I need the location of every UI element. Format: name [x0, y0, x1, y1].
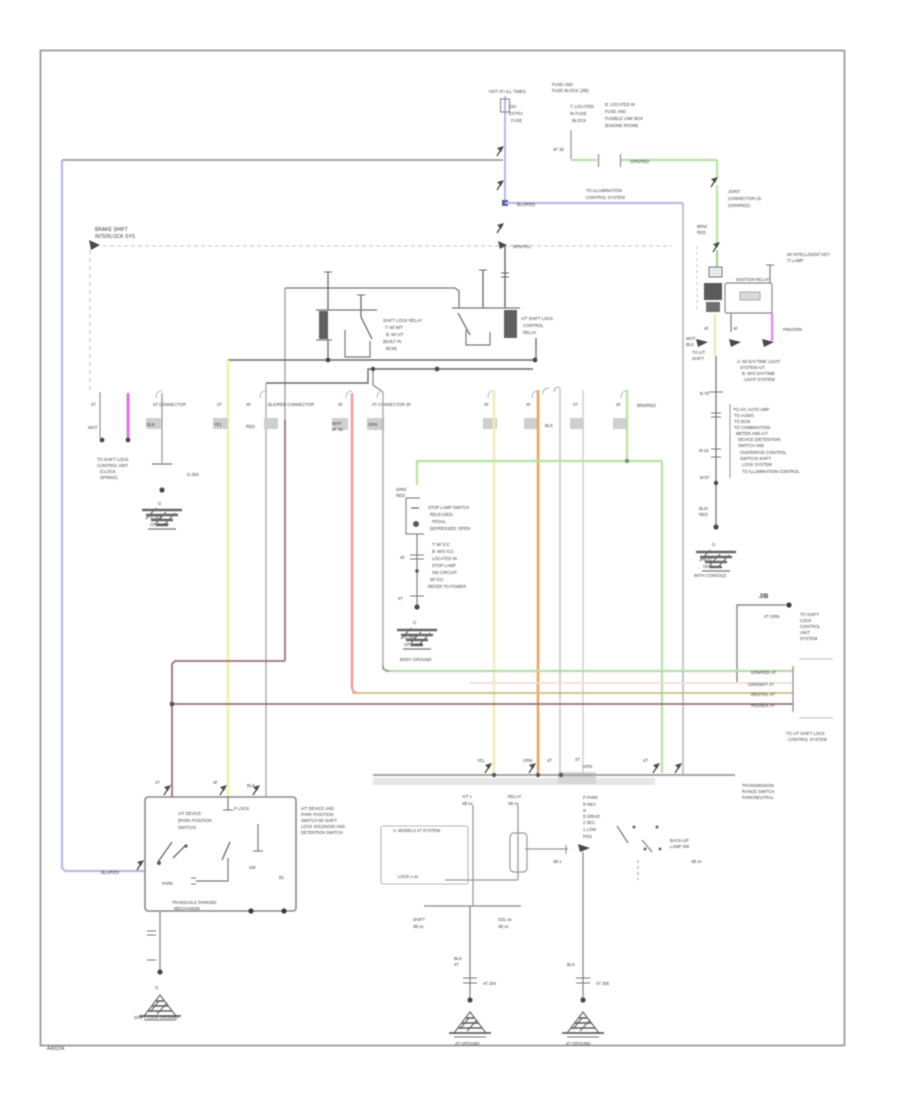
wire pale yellow x=715 — [714, 314, 717, 356]
wire tan row3 y=693 — [352, 692, 793, 694]
svg-text:4T 305: 4T 305 — [596, 981, 610, 986]
svg-text:FUSE: FUSE — [511, 118, 522, 123]
svg-text:A/T DEVICE AND: A/T DEVICE AND — [301, 806, 334, 811]
common line left — [525, 848, 568, 850]
svg-text:IN FUSE: IN FUSE — [570, 111, 587, 116]
wire green vertical x=717 top — [716, 160, 718, 178]
wire BLK main feed horizontal y=160 — [62, 159, 503, 161]
svg-text:4B xx: 4B xx — [498, 924, 509, 929]
svg-text:SWITCH W/ SHIFT: SWITCH W/ SHIFT — [301, 818, 337, 823]
svg-text:WHT: WHT — [332, 421, 342, 426]
connector ticks on green — [598, 154, 600, 167]
svg-text:4T: 4T — [575, 757, 580, 762]
svg-text:A40234: A40234 — [47, 1046, 64, 1052]
svg-text:T: LOCATED: T: LOCATED — [570, 104, 594, 109]
svg-text:TRANSAXLE PARKING: TRANSAXLE PARKING — [172, 900, 217, 905]
svg-text:BLK: BLK — [686, 342, 694, 347]
ground G3 chassis — [696, 550, 736, 571]
component stack capacitor — [709, 267, 722, 277]
svg-text:4T GROUND: 4T GROUND — [566, 1041, 591, 1046]
svg-text:4F 36: 4F 36 — [553, 147, 564, 152]
svg-text:EXTRA: EXTRA — [509, 111, 523, 116]
svg-text:B: W/ A/T: B: W/ A/T — [386, 332, 404, 337]
svg-text:GROUND: GROUND — [404, 642, 423, 647]
svg-text:YEL: YEL — [214, 422, 223, 427]
connector bracket right x=793 — [792, 666, 794, 712]
svg-text:R REV: R REV — [583, 802, 596, 807]
svg-text:SYSTEM A/T: SYSTEM A/T — [740, 365, 765, 370]
fuse F1 symbol — [501, 99, 510, 112]
svg-text:IGNITION RELAY: IGNITION RELAY — [736, 277, 769, 282]
svg-text:MECHANISM: MECHANISM — [174, 906, 200, 911]
ground G1 chassis — [142, 508, 182, 529]
svg-text:DETENTION SWITCH: DETENTION SWITCH — [301, 830, 343, 835]
svg-text:TO A/C AUTO AMP: TO A/C AUTO AMP — [733, 407, 769, 412]
wire BLU/RED horizontal y=203 — [505, 202, 683, 204]
svg-text:4F: 4F — [484, 402, 489, 407]
svg-text:T: W/ ICC: T: W/ ICC — [432, 542, 450, 547]
drop from bus to connector row x=373 — [373, 369, 383, 392]
junction dots y=360 — [326, 358, 331, 363]
svg-text:4F: 4F — [246, 402, 251, 407]
junction at 505,203 — [502, 200, 508, 206]
svg-text:TO A/T SHIFT LOCK: TO A/T SHIFT LOCK — [786, 731, 825, 736]
bottom connect line — [445, 879, 518, 881]
svg-text:LAMP SW: LAMP SW — [670, 844, 689, 849]
connector fork on fuse drop 2 — [497, 180, 504, 190]
relay R2 top corner pin — [482, 270, 484, 308]
svg-text:TO AUDIO: TO AUDIO — [734, 413, 755, 418]
svg-text:P PARK: P PARK — [583, 795, 598, 800]
wire GRN/RED horizontal top — [571, 159, 597, 161]
connector fork on fuse drop 3 — [497, 223, 504, 233]
svg-text:B: W/O DAYTIME: B: W/O DAYTIME — [742, 371, 775, 376]
wire BLU/RED fuse drop x=505 — [504, 96, 506, 203]
svg-text:G: G — [712, 542, 715, 547]
wire gray x=262 from bus y=383 — [265, 383, 267, 797]
svg-text:FUSE AND: FUSE AND — [605, 109, 626, 114]
svg-text:SWITCH AND: SWITCH AND — [738, 443, 764, 448]
svg-text:W/ INTELLIGENT KEY: W/ INTELLIGENT KEY — [787, 252, 830, 257]
svg-text:INTERLOCK SYS: INTERLOCK SYS — [95, 234, 136, 240]
svg-text:4T CONNECTOR 4F: 4T CONNECTOR 4F — [372, 402, 411, 407]
svg-text:A: W/ DAYTIME LIGHT: A: W/ DAYTIME LIGHT — [737, 359, 781, 364]
svg-text:BACK-UP: BACK-UP — [670, 838, 689, 843]
list bracket — [729, 404, 731, 478]
bus y=360 between relays — [228, 359, 536, 361]
svg-text:2 SEC: 2 SEC — [583, 820, 595, 825]
svg-text:4F: 4F — [526, 402, 531, 407]
column x=162 wire to ground — [161, 393, 163, 463]
switch diagonals — [617, 826, 628, 843]
wire green x=717 middle — [716, 185, 718, 245]
svg-text:4F: 4F — [338, 402, 343, 407]
svg-text:4B xx: 4B xx — [413, 924, 424, 929]
switch S1 stop lamp — [406, 498, 424, 534]
svg-text:B: W/O ICC: B: W/O ICC — [432, 549, 454, 554]
relay R1 body — [316, 309, 377, 311]
svg-text:GRN: GRN — [368, 422, 377, 427]
box B1 switch 1 — [158, 842, 172, 862]
svg-text:DEPRESSED: OPEN: DEPRESSED: OPEN — [430, 526, 470, 531]
dashed vertical x=697 — [696, 246, 698, 312]
svg-text:A: MODELS AT SYSTEM: A: MODELS AT SYSTEM — [393, 828, 441, 833]
svg-text:B-75: B-75 — [700, 391, 710, 396]
svg-text:SW: SW — [249, 865, 256, 870]
relay R1 switch pin x=361 — [360, 295, 362, 317]
svg-text:4B x: 4B x — [553, 859, 562, 864]
box J/B outline — [737, 605, 786, 682]
svg-text:RED: RED — [246, 424, 255, 429]
box B1 internal vertical x=228 — [227, 797, 229, 810]
connector ticks on x=505 — [501, 272, 509, 274]
svg-text:DEVICE (DETENTION: DEVICE (DETENTION — [738, 437, 780, 442]
svg-text:A/T x: A/T x — [462, 794, 473, 799]
svg-text:GRN: GRN — [583, 764, 592, 769]
svg-text:LOCK SYSTEM: LOCK SYSTEM — [742, 462, 772, 467]
svg-text:4T: 4T — [643, 758, 648, 763]
svg-text:(PARK POSITION: (PARK POSITION — [178, 818, 212, 823]
svg-text:M-16: M-16 — [699, 448, 709, 453]
svg-text:BLK: BLK — [147, 422, 155, 427]
strip shading — [373, 778, 655, 785]
wire below box x=160 — [159, 911, 161, 972]
column x=560 gray wire — [559, 388, 561, 775]
relay R3 top stub — [769, 265, 771, 283]
svg-text:B1: B1 — [279, 875, 285, 880]
column x=100 stub — [99, 392, 101, 438]
dashed separator line — [103, 245, 672, 247]
wire below switch x=417 — [416, 534, 418, 607]
wire GRN/RED continues to x=717 — [621, 159, 717, 161]
svg-text:WHT: WHT — [686, 336, 696, 341]
relay R1 top pin x=328 — [327, 272, 329, 310]
svg-text:4T: 4T — [454, 962, 459, 967]
svg-text:SW CIRCUIT: SW CIRCUIT — [432, 570, 457, 575]
junction dot green x=627 — [625, 459, 629, 463]
svg-text:4T: 4T — [91, 402, 96, 407]
column x=285 maroon wire — [284, 420, 286, 661]
svg-text:FUSE AND: FUSE AND — [552, 82, 573, 87]
svg-text:RED/YEL 4T: RED/YEL 4T — [751, 692, 775, 697]
wire down to ground x=470 — [469, 906, 471, 1000]
svg-text:G: G — [155, 985, 158, 990]
svg-text:YEL: YEL — [477, 758, 486, 763]
svg-text:RED: RED — [396, 493, 405, 498]
svg-text:TRANSMISSION: TRANSMISSION — [742, 783, 774, 788]
svg-text:CONTROL: CONTROL — [523, 323, 544, 328]
svg-text:GND: GND — [703, 564, 712, 569]
svg-text:SOL xx: SOL xx — [498, 917, 512, 922]
wire gray vertical x=683 — [682, 203, 684, 775]
svg-text:UNIT: UNIT — [800, 630, 810, 635]
svg-text:N: N — [583, 808, 586, 813]
relay R3 left pin — [730, 313, 732, 332]
svg-text:BRAKE SHIFT: BRAKE SHIFT — [95, 227, 128, 233]
svg-text:D DRIVE: D DRIVE — [583, 814, 600, 819]
svg-text:TO COMBINATION: TO COMBINATION — [734, 425, 770, 430]
box B1 shift lock unit — [145, 797, 296, 911]
wire stub to green feed — [570, 130, 572, 159]
connector fork into shift lock box — [137, 860, 144, 870]
svg-text:PNK/GRN: PNK/GRN — [783, 327, 802, 332]
svg-text:W/ ICC: W/ ICC — [430, 577, 444, 582]
wire BLU/RED left drop x=62 — [62, 160, 145, 871]
wire green row1 y=671 — [385, 670, 793, 672]
junction arrow top-left dashed — [89, 240, 100, 250]
wire pink row2 y=683 — [470, 682, 793, 684]
svg-text:ORN: ORN — [523, 758, 532, 763]
svg-text:4F: 4F — [213, 780, 218, 785]
svg-text:WITH CONSOLE: WITH CONSOLE — [694, 573, 727, 578]
svg-text:A/T DEVICE: A/T DEVICE — [178, 811, 201, 816]
wire maroon row4 y=704 — [172, 703, 793, 705]
svg-text:TO ILLUMINATION: TO ILLUMINATION — [586, 188, 622, 193]
svg-text:JOINT: JOINT — [728, 189, 741, 194]
svg-text:B: LOCATED IN: B: LOCATED IN — [605, 102, 635, 107]
svg-text:TO ILLUMINATION CONTROL: TO ILLUMINATION CONTROL — [742, 469, 800, 474]
svg-text:CONTROL SYSTEM: CONTROL SYSTEM — [788, 737, 827, 742]
svg-text:M-57: M-57 — [703, 557, 713, 562]
box B1 internal vertical x=258 — [257, 824, 259, 851]
svg-text:SHIFT LOCK GROUND: SHIFT LOCK GROUND — [134, 1015, 178, 1020]
fork arrows under relay — [696, 339, 708, 347]
relay R3 right pin magenta — [771, 313, 773, 341]
svg-text:T: W/ M/T: T: W/ M/T — [385, 325, 403, 330]
svg-text:4F: 4F — [616, 402, 621, 407]
svg-text:CONTROL SYSTEM: CONTROL SYSTEM — [586, 195, 625, 200]
svg-text:BODY GROUND: BODY GROUND — [400, 657, 432, 662]
svg-text:STOP LAMP SWITCH: STOP LAMP SWITCH — [428, 505, 469, 510]
svg-text:J/B: J/B — [759, 594, 769, 600]
resistor component — [510, 833, 527, 872]
relay R3 box — [725, 283, 772, 313]
svg-text:M-57: M-57 — [700, 475, 710, 480]
svg-text:4F: 4F — [400, 555, 405, 560]
svg-text:4B xx: 4B xx — [462, 801, 473, 806]
svg-text:4T GROUND: 4T GROUND — [455, 1041, 480, 1046]
column x=352 red wire — [351, 393, 353, 688]
wire down right x=583 — [582, 852, 584, 1000]
svg-text:4T GRN: 4T GRN — [764, 614, 779, 619]
svg-text:RELEASED:: RELEASED: — [430, 512, 454, 517]
corner from x=383 gray into green — [383, 665, 389, 671]
svg-text:15A: 15A — [509, 104, 517, 109]
svg-text:4T: 4T — [398, 596, 403, 601]
fork on green at 245 — [713, 242, 720, 252]
svg-text:4F: 4F — [733, 326, 738, 331]
wire green stub above component stack — [716, 250, 718, 267]
svg-text:G: G — [158, 501, 161, 506]
relay R1 bottom pin — [327, 340, 329, 360]
svg-text:PARK: PARK — [162, 881, 173, 886]
svg-text:PEDAL: PEDAL — [432, 519, 446, 524]
svg-text:(ENGINE ROOM): (ENGINE ROOM) — [605, 123, 639, 128]
svg-text:4T: 4T — [573, 402, 578, 407]
wire green vertical x=662 — [661, 461, 663, 773]
svg-text:LOCK SOLENOID AND: LOCK SOLENOID AND — [301, 824, 345, 829]
svg-text:4T 304: 4T 304 — [483, 981, 497, 986]
svg-text:OVERDRIVE CONTROL: OVERDRIVE CONTROL — [740, 450, 787, 455]
svg-text:RELAY: RELAY — [523, 330, 537, 335]
svg-text:RANGE SWITCH: RANGE SWITCH — [742, 789, 775, 794]
fork under list — [578, 844, 590, 852]
svg-text:REFER TO POWER: REFER TO POWER — [428, 584, 466, 589]
svg-text:G-304: G-304 — [404, 635, 416, 640]
svg-text:TO SHIFT LOCK: TO SHIFT LOCK — [97, 457, 129, 462]
svg-text:SYSTEM: SYSTEM — [800, 636, 818, 641]
svg-text:GRN/: GRN/ — [396, 487, 407, 492]
svg-text:SPRING): SPRING) — [100, 475, 118, 480]
wire green bus y=461 — [417, 461, 662, 485]
svg-text:G-303: G-303 — [187, 472, 199, 477]
svg-text:BLK: BLK — [567, 962, 575, 967]
svg-text:RED/BLK 4T: RED/BLK 4T — [751, 703, 775, 708]
svg-text:TO BCM: TO BCM — [734, 419, 751, 424]
svg-text:4F: 4F — [704, 326, 709, 331]
svg-text:SHIFT LOCK RELAY: SHIFT LOCK RELAY — [383, 318, 422, 323]
connector fork on fuse drop 1 — [497, 146, 504, 156]
svg-text:LOCATED IN: LOCATED IN — [432, 556, 457, 561]
svg-text:FUSIBLE LINK BOX: FUSIBLE LINK BOX — [605, 116, 643, 121]
wire maroon top vertical x=285 — [284, 288, 286, 420]
svg-text:4F 36: 4F 36 — [332, 427, 343, 432]
svg-text:PARK POSITION: PARK POSITION — [301, 812, 333, 817]
svg-text:A/T SHIFT LOCK: A/T SHIFT LOCK — [521, 316, 553, 321]
dashed vertical left x=90 — [89, 250, 91, 390]
wire BLK chain x=716 — [715, 356, 717, 528]
svg-text:RED: RED — [699, 512, 708, 517]
junction dots on bus — [492, 773, 496, 777]
svg-text:1 LOW: 1 LOW — [583, 827, 596, 832]
svg-text:G-303: G-303 — [150, 515, 162, 520]
wire BLK fuse drop lower x=505 — [504, 246, 506, 308]
svg-text:BRN/: BRN/ — [697, 224, 708, 229]
svg-text:RELAY: RELAY — [508, 794, 522, 799]
svg-text:CONTROL: CONTROL — [800, 624, 821, 629]
svg-text:BLK/RED CONNECTOR: BLK/RED CONNECTOR — [268, 402, 314, 407]
svg-text:4T: 4T — [217, 402, 222, 407]
svg-text:SHIFT: SHIFT — [692, 356, 705, 361]
svg-text:BLU/RED: BLU/RED — [101, 870, 119, 875]
svg-text:SWITCH): SWITCH) — [178, 825, 197, 830]
svg-text:BRN/RED: BRN/RED — [637, 403, 656, 408]
svg-text:HOT AT ALL TIMES: HOT AT ALL TIMES — [489, 89, 526, 94]
svg-text:STOP LAMP: STOP LAMP — [432, 563, 456, 568]
svg-text:CONNECTOR-15: CONNECTOR-15 — [728, 196, 762, 201]
svg-text:T/ LAMP: T/ LAMP — [787, 258, 803, 263]
wire yellow from bus corner x=228 — [227, 360, 230, 797]
verticals below — [472, 805, 474, 906]
svg-text:BLK/: BLK/ — [699, 506, 709, 511]
junction arrow on dashed at x=505 — [498, 241, 507, 249]
svg-text:SWITCH) SHIFT: SWITCH) SHIFT — [740, 456, 772, 461]
svg-text:4T: 4T — [155, 780, 160, 785]
bus line y=775 — [373, 774, 735, 776]
svg-text:TO A/T: TO A/T — [692, 350, 706, 355]
svg-text:LIGHT SYSTEM: LIGHT SYSTEM — [744, 377, 775, 382]
svg-text:4B xx: 4B xx — [691, 859, 702, 864]
ground G6 earth — [562, 1012, 604, 1037]
svg-text:GRN/WHT 4T: GRN/WHT 4T — [748, 682, 774, 687]
svg-text:P LOCK: P LOCK — [234, 806, 249, 811]
svg-text:BLOCK: BLOCK — [572, 118, 586, 123]
svg-text:G: G — [413, 620, 416, 625]
svg-text:(CLOCK: (CLOCK — [100, 469, 116, 474]
svg-text:BLK: BLK — [545, 423, 553, 428]
svg-text:4T: 4T — [547, 758, 552, 763]
box B1 bottom dots — [248, 908, 253, 913]
svg-text:WHT: WHT — [88, 425, 98, 430]
svg-text:PARK/NEUTRAL: PARK/NEUTRAL — [742, 795, 774, 800]
svg-text:4T CONNECTOR: 4T CONNECTOR — [153, 402, 186, 407]
svg-text:RED: RED — [697, 230, 706, 235]
connector hooks — [156, 391, 162, 398]
fork on green x=717 — [711, 177, 718, 187]
relay R2 body — [452, 307, 520, 309]
junction dot y=369 — [435, 367, 440, 372]
svg-text:METER AND A/T: METER AND A/T — [736, 431, 768, 436]
wire horizontal y=288 to relay2 — [285, 288, 459, 308]
svg-text:LOCK: LOCK — [800, 618, 812, 623]
ground G5 earth — [449, 1012, 491, 1037]
svg-text:CONTROL UNIT: CONTROL UNIT — [97, 463, 129, 468]
svg-text:LOCK x xx: LOCK x xx — [398, 874, 419, 879]
maroon elbow from x=285 — [172, 661, 285, 797]
svg-text:(BUILT IN: (BUILT IN — [383, 339, 401, 344]
svg-text:GRN/RED 4T: GRN/RED 4T — [751, 670, 777, 675]
svg-text:POS: POS — [583, 834, 592, 839]
svg-text:BRN/YEL: BRN/YEL — [513, 244, 532, 249]
bus y=369 — [266, 369, 533, 383]
ground G2 chassis — [397, 628, 437, 649]
svg-text:TO SHIFT: TO SHIFT — [800, 612, 819, 617]
svg-text:BCM): BCM) — [386, 346, 397, 351]
svg-text:SHIFT: SHIFT — [413, 917, 426, 922]
svg-text:(GRN/RED): (GRN/RED) — [728, 203, 751, 208]
ground G4 earth — [139, 995, 181, 1020]
svg-text:BLK: BLK — [454, 956, 462, 961]
svg-text:FUSE BLOCK (J/B): FUSE BLOCK (J/B) — [552, 88, 589, 93]
column x=128 magenta wire — [127, 393, 130, 438]
relay R2 bottom pin — [535, 338, 537, 360]
svg-text:GROUND: GROUND — [150, 522, 169, 527]
svg-text:GRN/RED: GRN/RED — [630, 159, 649, 164]
sub box left — [381, 826, 468, 884]
svg-text:BLU/RED: BLU/RED — [517, 202, 535, 207]
